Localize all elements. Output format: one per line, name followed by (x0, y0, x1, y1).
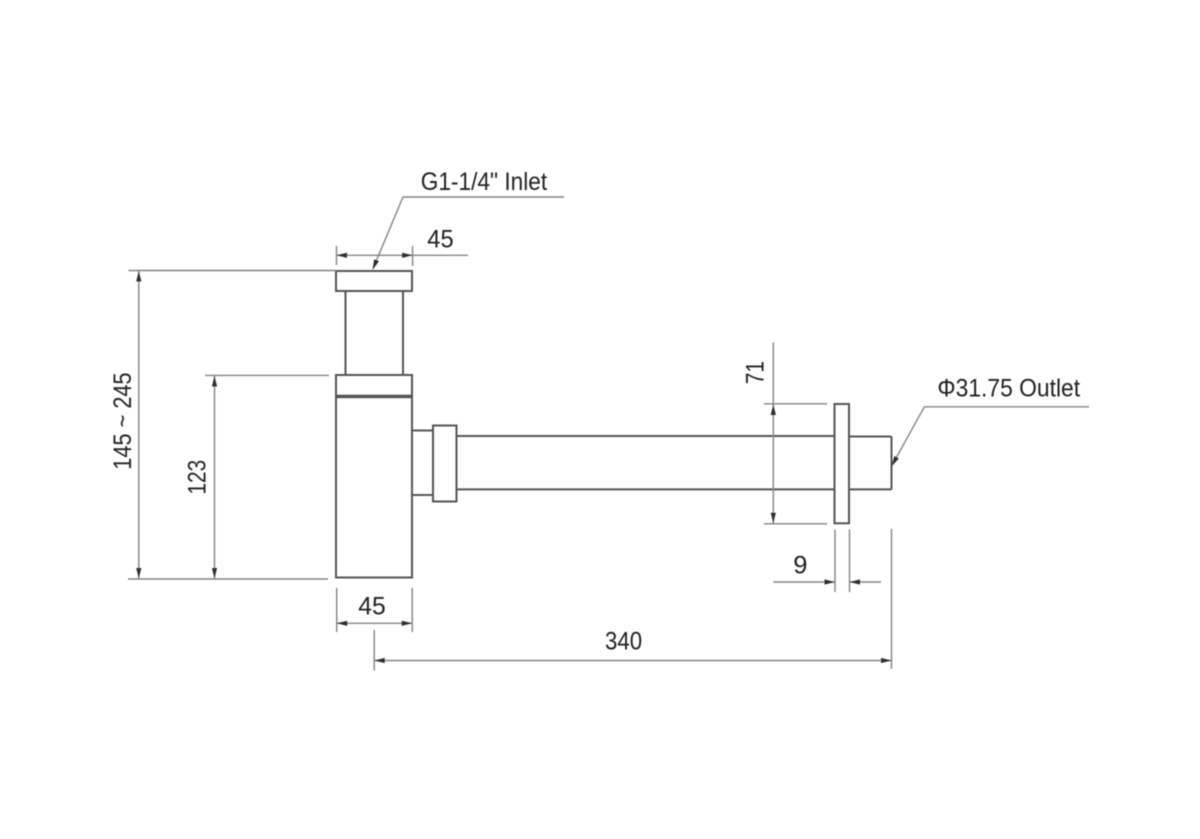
svg-text:340: 340 (605, 628, 642, 656)
svg-text:45: 45 (358, 593, 386, 621)
svg-text:123: 123 (184, 460, 212, 495)
svg-text:9: 9 (793, 552, 807, 580)
svg-text:45: 45 (427, 226, 453, 254)
svg-text:G1-1/4" Inlet: G1-1/4" Inlet (421, 168, 548, 196)
svg-text:145 ~ 245: 145 ~ 245 (109, 372, 137, 469)
svg-text:71: 71 (742, 361, 770, 384)
svg-text:Φ31.75 Outlet: Φ31.75 Outlet (937, 375, 1080, 403)
